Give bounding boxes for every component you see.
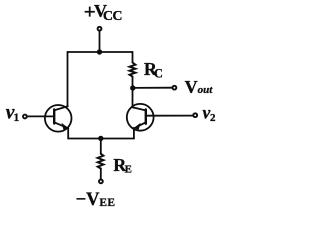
svg-text:V: V [185,77,198,97]
svg-text:out: out [198,84,214,96]
svg-text:2: 2 [210,112,216,124]
svg-text:CC: CC [103,9,123,24]
svg-text:E: E [125,163,132,175]
svg-text:EE: EE [99,197,115,209]
svg-text:−V: −V [76,190,101,210]
svg-text:C: C [154,67,163,81]
svg-text:1: 1 [13,110,19,124]
